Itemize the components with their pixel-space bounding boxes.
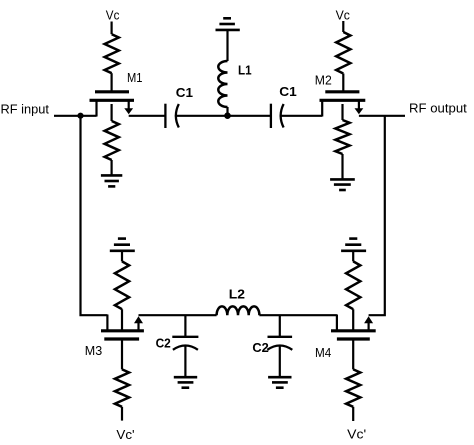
wire C1 right to M2 drain [280,115,323,117]
wire M2 right leg (source) [358,100,360,108]
wire M1 right leg (source) [128,100,130,108]
wire M2 source to RF output [359,115,405,117]
capacitor C1 left: straight plate [164,104,166,128]
inductor L2 (horizontal coil, bumps up) [217,306,260,315]
wire down to C2 left [184,315,186,337]
transistor M3 channel bar [101,329,144,332]
wire M3 source to L2 (bottom rail left) [139,314,217,316]
transistor M3 gate bar [104,337,139,340]
capacitor C2 right: curved plate [267,346,292,350]
wire M3 left leg [106,315,108,331]
svg-text:M4: M4 [315,346,331,360]
resistor (M1 gate bias from Vc) [105,34,119,73]
wire : right vertical bus from output down to bottom row [369,116,385,315]
wire M4 gate down [352,339,354,369]
resistor (M2 gate bias from Vc) [336,32,350,74]
svg-text:RF input: RF input [1,102,50,116]
resistor (M4 shunt from inverted ground) [346,261,360,309]
wire C2 left to ground [184,346,186,377]
wire M3 right leg (source) [137,323,139,331]
wire resistor to Vc' left [121,407,123,421]
wire C1 left to center node [175,115,228,117]
wire M2 shunt resistor to ground [341,154,343,179]
wire : left vertical bus from input node down to bottom row [81,116,108,315]
wire : RF input lead [54,115,97,117]
svg-text:Vc: Vc [106,9,120,23]
transistor M4 gate bar [337,337,370,340]
transistor M1 channel bar [90,99,135,102]
node input junction dot [77,113,83,119]
svg-text:M3: M3 [85,344,102,358]
wire M1 source to C1 left [129,115,165,117]
wire R bias to M2 gate bar [342,74,344,92]
wire R bias to M1 gate bar [110,73,112,91]
svg-text:Vc: Vc [336,9,350,23]
wire M2 middle leg to shunt resistor [341,104,343,120]
ground (inverted, above M4 resistor) [341,239,366,251]
wire ground to M4 top resistor [352,251,354,262]
transistor M3 source arrow (up) [134,316,143,323]
svg-text:RF output: RF output [409,102,467,116]
ground (below M1 shunt resistor) [101,175,122,186]
wire C2 right to ground [279,346,281,377]
svg-text:L1: L1 [238,63,252,78]
resistor (M3 gate bias to Vc') [115,369,129,406]
wire M3 middle leg [121,309,123,330]
wire resistor to Vc' right [352,407,354,421]
transistor M1 source arrow (down) [124,108,133,114]
transistor M2 source arrow (down) [355,108,364,114]
capacitor C1 right: straight plate [270,104,272,128]
wire center node to C1 right [228,115,271,117]
transistor M4 channel bar [331,329,376,332]
ground (below C2 left) [174,377,197,388]
transistor M2 gate bar [325,90,359,93]
node center junction dot [224,112,231,119]
ground (inverted, above L1) [216,18,240,30]
transistor M2 channel bar [320,99,366,102]
capacitor C2 left: straight plate [172,336,198,338]
svg-text:Vc': Vc' [347,428,366,442]
transistor M4 source arrow (up) [364,316,373,323]
ground (below M2 shunt resistor) [330,179,355,190]
wire L1 to center node [226,107,228,116]
svg-text:C2: C2 [156,336,171,351]
capacitor C1 left: curved plate [176,104,179,128]
wire ground to L1 [226,30,228,61]
ground (inverted, above M3 resistor) [110,239,135,251]
transistor M1 gate bar [95,90,129,93]
svg-text:M1: M1 [127,71,143,85]
resistor (M1 shunt to ground) [105,121,119,160]
wire down to C2 right [279,315,281,337]
capacitor C1 right: curved plate [281,104,284,128]
wire L2 to M4 (bottom rail right) [259,314,337,316]
wire M3 gate down [121,339,123,369]
wire M1 left leg (drain) [95,100,97,116]
ground (below C2 right) [268,377,291,388]
wire M4 left leg [336,315,338,331]
wire ground to M3 top resistor [121,251,123,262]
resistor (M2 shunt to ground) [335,120,349,154]
svg-text:Vc': Vc' [116,428,134,442]
svg-text:C1: C1 [176,85,193,100]
svg-text:L2: L2 [229,287,245,302]
wire Vc to R bias M1 [110,22,112,35]
capacitor C2 right: straight plate [268,336,293,338]
resistor (M4 gate bias to Vc') [346,369,360,406]
svg-text:M2: M2 [315,74,332,88]
wire M1 middle leg to shunt resistor [110,104,112,121]
svg-text:C2: C2 [252,340,268,355]
wire M4 middle leg [352,309,354,330]
svg-text:C1: C1 [279,84,297,99]
wire Vc to R bias M2 [342,21,344,32]
wire shunt resistor to ground [110,160,112,175]
resistor (M3 shunt from inverted ground) [115,261,129,309]
inductor L1 (vertical coil, bumps left) [218,61,227,107]
wire M2 left leg (drain) [321,100,323,116]
capacitor C2 left: curved plate [173,346,198,350]
wire M4 right leg (source) [368,323,370,331]
